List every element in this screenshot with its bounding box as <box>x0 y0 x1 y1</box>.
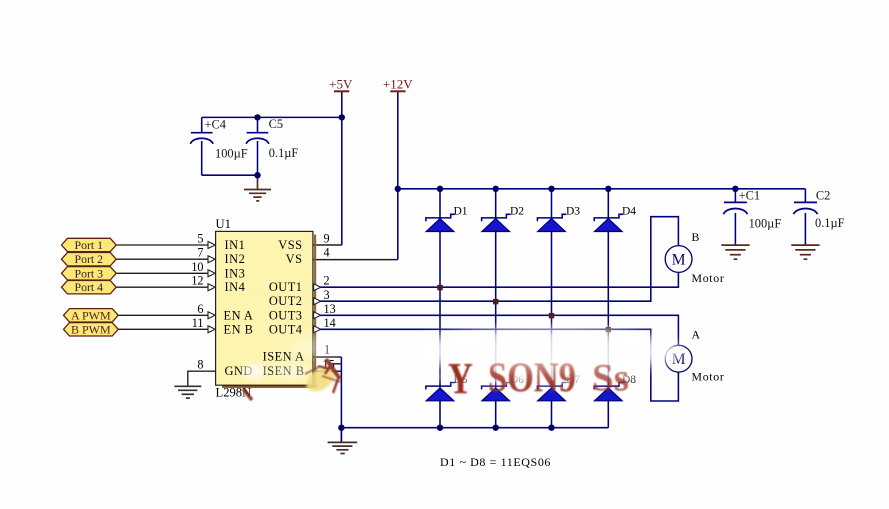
svg-text:Port 4: Port 4 <box>75 280 104 294</box>
svg-text:9: 9 <box>324 232 330 246</box>
svg-text:IN4: IN4 <box>225 280 246 294</box>
wire: OUT3 to motor A top <box>313 315 678 345</box>
svg-text:IN1: IN1 <box>225 238 246 252</box>
svg-text:OUT2: OUT2 <box>269 294 303 308</box>
wire: pin 1 ISEN A stub <box>313 356 341 358</box>
diode D1 <box>426 206 468 232</box>
wire: +5V vertical down to pin 9 <box>341 91 343 245</box>
wire: diode column 1 <box>439 189 441 428</box>
svg-text:D1: D1 <box>454 206 468 218</box>
wire: pin 9 VSS stub <box>313 244 342 246</box>
svg-text:8: 8 <box>197 358 203 372</box>
port connector Port 4 <box>62 280 117 294</box>
power +12V <box>383 76 413 91</box>
svg-text:4: 4 <box>324 246 330 260</box>
svg-text:+C4: +C4 <box>205 118 226 132</box>
motor A <box>665 327 724 383</box>
svg-text:EN A: EN A <box>224 308 254 322</box>
power +5V <box>329 76 353 91</box>
junction dot rail col3 <box>548 186 554 192</box>
svg-text:5: 5 <box>197 232 203 246</box>
ground at bottom center <box>328 428 358 454</box>
junction dot +12V rail <box>395 186 401 192</box>
junction dot bottom col3 <box>548 425 554 431</box>
svg-text:2: 2 <box>324 274 330 288</box>
svg-text:D1 ~ D8 = 11EQS06: D1 ~ D8 = 11EQS06 <box>440 455 551 469</box>
svg-text:+12V: +12V <box>383 76 413 91</box>
wire: OUT4 to motor A bottom <box>313 329 678 401</box>
wire: B PWM to EN B <box>116 328 208 330</box>
wire: A PWM to EN A <box>116 314 208 316</box>
junction dot bottom col1 <box>437 425 443 431</box>
IC U1 body <box>216 217 317 399</box>
watermark yellow blob <box>306 368 335 392</box>
svg-text:C2: C2 <box>816 189 830 203</box>
motor B <box>665 230 724 285</box>
svg-text:D3: D3 <box>566 206 580 218</box>
svg-text:U1: U1 <box>216 217 231 231</box>
svg-text:IN3: IN3 <box>225 266 246 280</box>
svg-text:IN2: IN2 <box>225 252 246 266</box>
wire: pin 8 GND stub <box>188 371 216 386</box>
wire: Port 1 to IN1 <box>116 244 208 246</box>
svg-text:0.1µF: 0.1µF <box>269 146 299 160</box>
watermark text Y SON9 Ss <box>448 354 629 403</box>
diode D2 <box>482 206 525 232</box>
wire: Port 4 to IN4 <box>116 286 208 288</box>
pin arrow OUT1 <box>314 284 321 291</box>
svg-text:100µF: 100µF <box>749 216 782 230</box>
svg-text:14: 14 <box>324 316 336 330</box>
pin arrow IN2 <box>208 256 215 263</box>
watermark haze <box>242 328 683 384</box>
wire: diode column 4 <box>607 189 609 428</box>
ground at pin 8 <box>174 386 201 398</box>
svg-text:Port 1: Port 1 <box>75 238 104 252</box>
wire: diode column 2 <box>495 189 497 428</box>
capacitor C1 <box>723 189 781 231</box>
svg-text:6: 6 <box>197 302 203 316</box>
svg-text:A: A <box>692 327 701 341</box>
svg-text:3: 3 <box>324 288 330 302</box>
svg-text:D4: D4 <box>622 206 636 218</box>
svg-text:Port 3: Port 3 <box>75 266 104 280</box>
svg-text:EN B: EN B <box>224 322 254 336</box>
diode D8 <box>594 374 636 401</box>
wire: C5 stems <box>257 117 259 175</box>
wire: C4-C5 bottom link <box>202 174 258 176</box>
watermark fade over letters <box>485 352 595 372</box>
wire: +12V horizontal rail <box>398 188 806 190</box>
svg-text:13: 13 <box>324 302 336 316</box>
pin arrow EN A <box>208 312 215 319</box>
pin arrow IN4 <box>208 284 215 291</box>
svg-text:Motor: Motor <box>692 369 725 383</box>
junction dot bottom ground <box>338 425 344 431</box>
port connector Port 2 <box>62 252 117 266</box>
svg-text:100µF: 100µF <box>215 147 248 161</box>
wire: Port 3 to IN3 <box>116 272 208 274</box>
junction dot rail col4 <box>605 186 611 192</box>
wire: +12V vertical down to pin 4 <box>397 91 399 259</box>
capacitor C5 <box>246 117 298 160</box>
wire: diode column 3 <box>551 189 553 428</box>
pin arrow IN1 <box>208 242 215 249</box>
junction dot rail col2 <box>493 186 499 192</box>
port connector A PWM <box>64 308 119 322</box>
ground under C1 <box>721 245 749 259</box>
junction dot C4/C5 bottom <box>254 172 260 178</box>
svg-text:M: M <box>672 252 686 269</box>
pin arrow IN3 <box>208 270 215 277</box>
diode D7 <box>537 374 580 401</box>
watermark red strokes near IC <box>243 359 341 400</box>
svg-text:C5: C5 <box>269 117 283 131</box>
svg-text:Port 2: Port 2 <box>75 252 104 266</box>
svg-text:Motor: Motor <box>692 271 725 285</box>
port connector Port 3 <box>62 266 117 280</box>
svg-text:10: 10 <box>191 260 203 274</box>
wire: C4/C5 top rail to +5V <box>202 116 342 118</box>
junction square OUT1-col1 <box>437 285 442 290</box>
junction dot rail col1 <box>437 186 443 192</box>
junction dot C1 top <box>732 186 738 192</box>
wire: pin 4 VS stub <box>313 259 398 261</box>
junction square OUT3-col3 <box>549 313 554 318</box>
ground under C2 <box>791 245 819 259</box>
svg-text:OUT3: OUT3 <box>269 308 303 322</box>
svg-text:0.1µF: 0.1µF <box>815 216 845 230</box>
svg-text:OUT4: OUT4 <box>269 322 303 336</box>
IC U1 pin numbers <box>191 232 335 372</box>
pin arrow OUT2 <box>314 298 321 305</box>
svg-text:VSS: VSS <box>278 238 302 252</box>
wire: Port 2 to IN2 <box>116 258 208 260</box>
svg-text:Y: Y <box>448 354 473 403</box>
pin arrow EN B <box>208 326 215 333</box>
svg-text:Ss: Ss <box>592 357 629 400</box>
diode D6 <box>482 374 525 401</box>
svg-text:A PWM: A PWM <box>71 308 111 322</box>
svg-text:D2: D2 <box>510 206 524 218</box>
junction square OUT4-col4 <box>606 327 611 332</box>
svg-text:12: 12 <box>191 274 203 288</box>
port connector B PWM <box>64 322 119 336</box>
wire: C1 stem <box>734 189 736 245</box>
wire: C4 stems <box>201 117 203 175</box>
wire: pin 15 ISEN B stub and down <box>313 370 341 372</box>
port connector Port 1 <box>62 238 117 252</box>
junction dot bottom col2 <box>493 425 499 431</box>
wire: OUT1 to motor B bottom <box>313 273 678 288</box>
svg-text:11: 11 <box>192 316 204 330</box>
svg-text:B PWM: B PWM <box>71 322 111 336</box>
diode D3 <box>537 206 580 232</box>
capacitor C4 <box>190 118 247 161</box>
diode D5 <box>426 374 468 401</box>
capacitor C2 <box>794 189 845 230</box>
wire: C2 stem <box>804 189 806 245</box>
svg-text:B: B <box>692 230 700 244</box>
ground under C5 <box>244 175 271 201</box>
diode D4 <box>594 206 636 232</box>
svg-text:+C1: +C1 <box>739 189 760 203</box>
IC U1 pin labels <box>224 238 305 378</box>
wire: bottom rail <box>341 427 608 429</box>
svg-text:7: 7 <box>197 246 203 260</box>
junction dot +5V rail <box>339 114 345 120</box>
junction dot C5 top <box>254 114 260 120</box>
pin arrow OUT4 <box>314 326 321 333</box>
junction square OUT2-col2 <box>493 299 498 304</box>
wire: OUT2 to motor B top <box>313 217 678 302</box>
svg-text:+5V: +5V <box>329 76 353 91</box>
svg-text:OUT1: OUT1 <box>269 280 303 294</box>
pin arrow OUT3 <box>314 312 321 319</box>
svg-text:VS: VS <box>286 252 303 266</box>
